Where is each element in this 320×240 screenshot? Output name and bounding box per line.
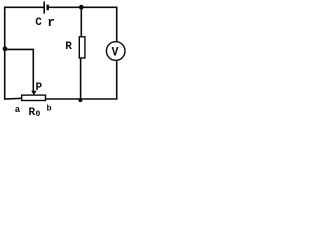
battery cell: short thick plate [47,5,49,11]
wiper arrowhead P [31,91,36,96]
svg-text:P: P [35,82,42,94]
svg-text:R: R [65,41,72,53]
wire top-left segment [5,7,44,48]
rheostat R0 box [22,95,46,100]
wire wiper branch [5,49,33,91]
battery cell: long plate [43,2,45,14]
wire resistor branch bottom [80,58,82,99]
svg-text:R: R [28,107,35,118]
wire resistor branch top [80,7,82,36]
svg-text:a: a [15,105,21,115]
svg-text:0: 0 [35,110,40,118]
svg-text:r: r [47,15,55,30]
wire right below voltmeter [46,60,117,99]
svg-text:V: V [112,45,119,59]
node junction dot top [79,5,84,10]
svg-text:b: b [46,103,51,113]
wire left lower segment [5,48,22,99]
svg-text:C: C [35,17,42,29]
node junction dot bottom [79,98,83,102]
resistor R box [79,37,85,58]
voltmeter U1 circle [106,42,125,61]
wire top-right segment [49,7,117,42]
node junction dot left [3,46,8,51]
